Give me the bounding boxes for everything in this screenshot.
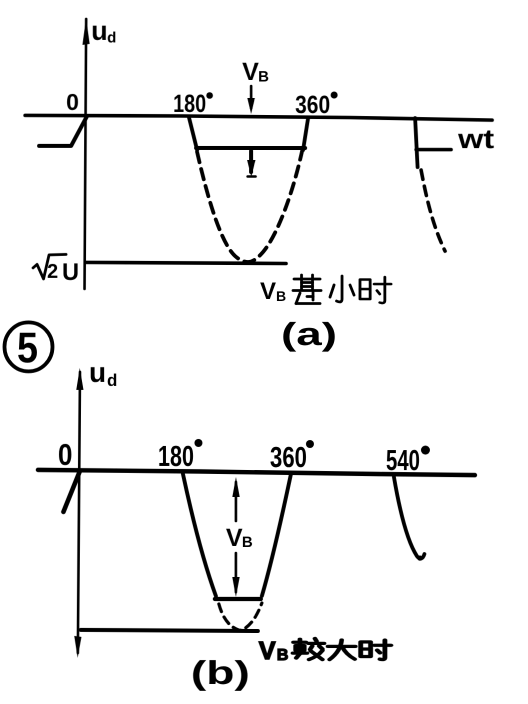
- dip right edge (b): [262, 474, 291, 596]
- svg-text:d: d: [107, 29, 116, 46]
- svg-text:360: 360: [270, 442, 307, 474]
- VB dimension arrow lower part (b): [232, 553, 239, 597]
- hanzi xiao (a): [330, 276, 354, 302]
- svg-text:5: 5: [17, 324, 38, 372]
- label VB jiao da shi (b): VB: [259, 637, 289, 665]
- arrow below VB level line (a): [247, 151, 256, 177]
- falling curve at 540 (b): [394, 477, 425, 561]
- label u_d (b): [89, 357, 117, 390]
- svg-text:B: B: [277, 647, 289, 664]
- svg-text:B: B: [258, 68, 269, 85]
- x-axis wt (a): [25, 115, 492, 120]
- VB dimension arrow upper part (b): [232, 477, 239, 521]
- circled 5 figure number: [4, 322, 52, 372]
- wt level short line (a): [416, 148, 451, 152]
- svg-text:360: 360: [295, 91, 330, 119]
- dip left edge (b): [183, 474, 216, 596]
- hanzi shen (a): [293, 275, 321, 304]
- dip left edge solid (a): [189, 118, 197, 150]
- hanzi jiao (b): [293, 639, 324, 660]
- label VB (a): [242, 58, 269, 86]
- svg-text:V: V: [259, 637, 276, 665]
- label sqrt2U (a): [33, 254, 79, 286]
- label 180deg (b): [158, 439, 203, 473]
- svg-text:V: V: [242, 58, 259, 86]
- svg-text:(b): (b): [191, 654, 250, 691]
- y-axis (b) with arrowheads both ends: [74, 368, 83, 658]
- svg-text:180: 180: [158, 441, 194, 473]
- svg-text:V: V: [260, 278, 276, 305]
- svg-text:0: 0: [58, 439, 73, 472]
- sqrt2 U level line (a): [86, 262, 286, 263]
- svg-text:B: B: [242, 534, 253, 551]
- svg-text:u: u: [89, 357, 106, 388]
- flat bottom line of dip (b): [215, 597, 261, 601]
- hanzi shi (b): [361, 640, 391, 659]
- label 540deg (b): [386, 445, 430, 477]
- dashed parabola bottom arc (b): [219, 603, 262, 631]
- pre-origin waveform segment (a): [39, 117, 87, 146]
- x-axis (b): [38, 470, 475, 475]
- post-360 falling segment solid (a): [415, 118, 418, 167]
- svg-text:wt: wt: [457, 124, 494, 154]
- y-axis (a) with arrowhead: [82, 18, 89, 289]
- origin diagonal segment (b): [63, 471, 80, 512]
- label 360deg (a): [295, 91, 338, 119]
- label VB (b): [226, 524, 253, 552]
- hanzi da (b): [328, 640, 355, 660]
- label VB shen xiao shi (a): VB: [260, 278, 286, 305]
- lower level line (b): [81, 630, 258, 631]
- svg-text:u: u: [91, 16, 108, 46]
- label 360deg (b): [270, 440, 314, 474]
- svg-text:U: U: [62, 259, 79, 286]
- dip right edge solid (a): [303, 118, 308, 150]
- label u_d (a): [91, 16, 116, 47]
- dashed falling curve right (a): [421, 170, 445, 251]
- svg-text:V: V: [226, 524, 243, 552]
- hanzi shi (a): [360, 277, 391, 303]
- svg-text:d: d: [107, 371, 117, 390]
- svg-text:180: 180: [173, 90, 206, 118]
- svg-text:(a): (a): [281, 316, 337, 352]
- svg-text:B: B: [276, 288, 286, 304]
- VB level line in dip (a): [196, 146, 305, 150]
- label 180deg (a): [173, 90, 213, 118]
- arrow VB pointing down to axis (a): [247, 86, 255, 114]
- dashed parabola VB small (a): [197, 151, 302, 262]
- svg-text:0: 0: [66, 89, 79, 115]
- svg-text:540: 540: [386, 445, 420, 477]
- svg-text:2: 2: [47, 261, 58, 283]
